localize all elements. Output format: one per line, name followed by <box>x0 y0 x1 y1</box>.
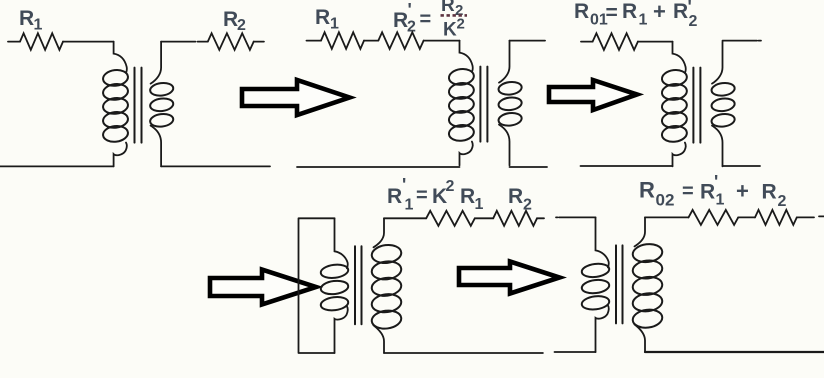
transformer T-C <box>661 42 735 167</box>
resistor R2 (circuit E) <box>755 210 797 225</box>
wire: circuit C secondary top <box>723 40 762 42</box>
fraction bar (dashed) <box>441 14 468 17</box>
wire: R1 to transformer primary (A) <box>63 41 114 43</box>
svg-text:': ' <box>402 175 406 195</box>
wire: R2' to transformer primary (B) <box>424 40 460 42</box>
wire: R2 right lead (A) <box>254 41 264 43</box>
svg-text:': ' <box>714 172 718 192</box>
wire: circuit B bottom-left return <box>297 166 460 168</box>
wire: secondary to R1' (D) <box>384 217 426 219</box>
svg-text:K: K <box>443 20 457 41</box>
svg-text:2: 2 <box>457 16 465 33</box>
svg-text:1: 1 <box>330 16 339 33</box>
svg-text:2: 2 <box>523 197 532 214</box>
svg-text:=: = <box>682 181 694 203</box>
wire: transformer secondary to R2 (A) <box>161 41 208 43</box>
wire: circuit C bottom-left return <box>581 165 673 167</box>
wire: circuit E bottom-left <box>555 351 596 353</box>
svg-text:=: = <box>420 9 432 31</box>
svg-text:R: R <box>223 8 238 31</box>
resistor R1' (circuit D) <box>426 211 475 226</box>
wire: circuit A top-left lead <box>8 41 20 43</box>
svg-text:R: R <box>19 7 34 30</box>
svg-text:1: 1 <box>34 17 43 34</box>
arrow: combine to R01 <box>549 80 637 110</box>
svg-text:R: R <box>762 181 777 204</box>
arrow: refer primary R1 to secondary <box>210 270 316 305</box>
svg-text:R: R <box>574 0 589 23</box>
svg-text:=: = <box>416 185 428 207</box>
wire: circuit B top-left lead <box>307 40 322 42</box>
svg-text:R: R <box>508 185 523 208</box>
svg-text:1: 1 <box>405 197 414 214</box>
svg-text:2: 2 <box>778 193 787 210</box>
svg-text:R: R <box>315 6 330 29</box>
wire: circuit A bottom-left return <box>0 165 114 167</box>
svg-text:R: R <box>441 0 455 16</box>
wire: between R1' and R2 (E) <box>738 216 755 218</box>
resistor R2' (circuit B) <box>378 32 423 49</box>
wire: circuit C top-left lead <box>581 41 593 43</box>
wire: circuit C bottom-right <box>723 165 761 167</box>
svg-text:02: 02 <box>656 191 675 210</box>
resistor R01 (circuit C) <box>593 33 638 50</box>
svg-text:=: = <box>606 2 618 25</box>
wire: circuit A bottom-right return <box>161 165 270 167</box>
transformer T-D <box>320 218 402 353</box>
svg-text:R: R <box>622 0 637 23</box>
svg-text:2: 2 <box>446 178 455 195</box>
svg-text:1: 1 <box>639 12 648 29</box>
svg-text:': ' <box>408 0 412 20</box>
wire: secondary to R1' (E) <box>645 216 689 218</box>
svg-text:+: + <box>736 179 749 204</box>
svg-text:R: R <box>639 178 655 203</box>
transformer T-E <box>581 217 663 352</box>
transformer T-A (1:K) <box>102 42 174 167</box>
resistor R1' (circuit E) <box>689 210 739 225</box>
wire: R2 right lead + open end (E) <box>797 216 824 217</box>
resistor R1 (circuit A) <box>20 33 63 50</box>
svg-text:2: 2 <box>237 17 246 34</box>
wire: circuit D bottom-right return <box>384 352 543 354</box>
svg-text:R: R <box>460 185 475 208</box>
wire: between R1' and R2 (D) <box>475 217 493 219</box>
resistor R2 (circuit D) <box>493 211 537 226</box>
svg-text:R: R <box>393 9 408 32</box>
arrow: combine to R02 <box>459 262 560 294</box>
wire: circuit B bottom-right <box>510 166 548 168</box>
svg-text:R: R <box>700 181 715 204</box>
wire: circuit B secondary top <box>510 40 546 42</box>
svg-text:+: + <box>653 0 666 24</box>
wire: R2 right lead + open end (D) <box>537 217 544 219</box>
resistor R2 (circuit A) <box>208 33 254 50</box>
svg-text:1: 1 <box>475 196 484 213</box>
wire: circuit E top-left lead <box>556 216 596 218</box>
wire: circuit D left side <box>299 218 335 353</box>
svg-text:R: R <box>387 185 402 208</box>
wire: between R1 and R2' (B) <box>364 40 378 42</box>
svg-text:1: 1 <box>716 192 725 209</box>
svg-text:2: 2 <box>689 13 698 30</box>
svg-text:R: R <box>673 0 688 23</box>
resistor R1 (circuit B) <box>321 32 364 49</box>
arrow: refer secondary R2 to primary <box>242 80 350 115</box>
wire: circuit E bottom-right return <box>645 351 824 353</box>
transformer T-B <box>448 41 522 166</box>
wire: R01 to transformer primary (C) <box>638 41 673 43</box>
